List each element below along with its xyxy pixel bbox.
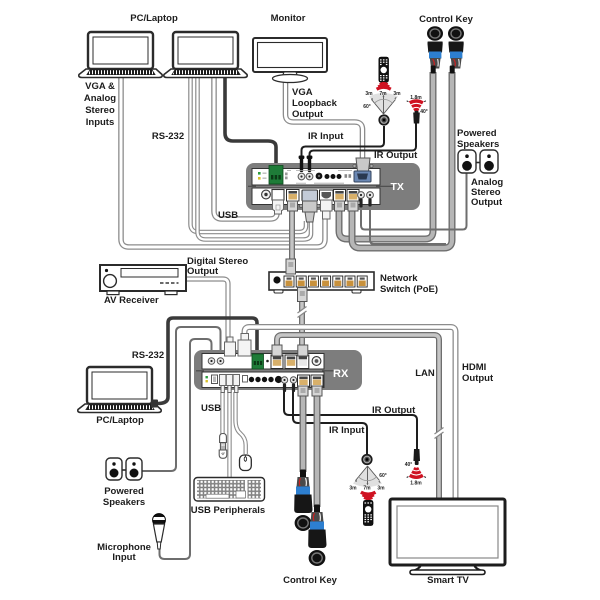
svg-text:PC/Laptop: PC/Laptop (96, 415, 144, 426)
TX audio out jack 1 with plug (358, 192, 365, 199)
svg-text:IR Output: IR Output (372, 405, 416, 416)
monitor (253, 38, 327, 83)
wire IR input to RX (293, 390, 367, 454)
svg-text:Speakers: Speakers (457, 139, 499, 150)
svg-text:RX: RX (333, 368, 349, 380)
svg-text:Network: Network (380, 273, 418, 284)
svg-text:Analog: Analog (84, 93, 116, 104)
wire LAN from RX to Smart TV (277, 335, 439, 500)
svg-text:IR Output: IR Output (374, 150, 418, 161)
TX control RJ45 port 1 with plug (334, 190, 346, 202)
wire stereo input b from PC/Laptop 2 to TX VGA breakout (198, 76, 312, 240)
network switch (269, 259, 374, 302)
svg-text:7m: 7m (379, 91, 387, 97)
svg-text:1.8m: 1.8m (410, 481, 422, 487)
control key 3 (294, 470, 312, 532)
svg-text:Powered: Powered (104, 486, 144, 497)
RX control RJ45 port 4 with plug (311, 375, 323, 387)
RX cat5e RJ45 with plug (297, 355, 309, 369)
svg-text:TX: TX (391, 181, 404, 193)
svg-text:60°: 60° (363, 104, 371, 110)
wire USB to mouse (236, 392, 246, 454)
svg-text:3m: 3m (393, 91, 401, 97)
TX USB-B port with plug (272, 190, 284, 201)
RX coax digital out with plug (225, 342, 236, 356)
USB dongle (219, 434, 227, 459)
IR receiver eye bottom (361, 454, 372, 465)
svg-text:RS-232: RS-232 (152, 131, 184, 142)
wire USB from PC/Laptop 2 to TX USB-B (214, 76, 277, 219)
cable break symbol on switch-RX cable (298, 307, 307, 318)
wire powered speakers to RX (142, 327, 221, 471)
svg-text:Output: Output (471, 197, 503, 208)
svg-text:HDMI: HDMI (462, 362, 486, 373)
TX VGA input port with breakout connector (302, 190, 318, 201)
wire analog stereo output from TX to powered speakers (361, 172, 467, 230)
RX control RJ45 port 3 with plug (298, 375, 310, 387)
wire from TX jack 2 (370, 206, 446, 244)
wire HDMI output from RX to Smart TV (245, 327, 456, 500)
RX audio connector cluster (249, 377, 254, 382)
IR beam arcs below top remote (377, 83, 391, 89)
svg-text:AV Receiver: AV Receiver (104, 295, 159, 306)
wire from PC/Laptop 1 to TX HDMI (121, 76, 325, 247)
svg-text:Switch (PoE): Switch (PoE) (380, 284, 438, 295)
RX small port (243, 376, 248, 383)
TX phoenix RS-232 port (269, 166, 283, 185)
wire control key 1 cable to TX (339, 72, 433, 239)
svg-text:USB: USB (201, 403, 221, 414)
plug below switch port 2 (298, 288, 308, 302)
wire VGA loopback from monitor to TX (286, 82, 363, 158)
IR receiver eye top (378, 114, 389, 125)
svg-text:Powered: Powered (457, 128, 497, 139)
IR emitter beam fan top (407, 101, 426, 110)
IR remote control top (379, 57, 389, 82)
wire USB to keyboard (227, 392, 231, 478)
RX audio out jack (217, 358, 224, 365)
wire VGA input a from PC/Laptop 2 to TX VGA breakout (191, 76, 307, 232)
RX IR in jack with plug (290, 377, 296, 383)
svg-text:Control Key: Control Key (419, 14, 474, 25)
cable break symbol on LAN cable (435, 428, 444, 439)
RX mic jack (208, 358, 215, 365)
IR emitter beam fan bottom (407, 468, 426, 477)
svg-text:Output: Output (292, 109, 324, 120)
svg-text:USB: USB (218, 210, 238, 221)
RX USB host port (212, 375, 218, 384)
TX RJ45 to switch with plug (287, 190, 300, 202)
RX LAN RJ45 with plug (271, 355, 283, 369)
TX dip switches (285, 173, 288, 176)
svg-text:1.8m: 1.8m (410, 95, 422, 101)
svg-text:PC/Laptop: PC/Laptop (130, 13, 178, 24)
plug into switch port 1 (286, 259, 296, 274)
TX unit (246, 156, 420, 223)
powered speakers bottom left (106, 458, 142, 480)
TX HDMI port with plug (320, 190, 334, 200)
svg-text:7m: 7m (363, 486, 371, 492)
RX RJ45 empty (285, 355, 297, 369)
TX IR output jack with plug (307, 156, 313, 160)
wire IR output from RX (284, 390, 417, 449)
TX IR input jack with plug (299, 156, 305, 160)
IR receiver cone bottom (353, 466, 382, 487)
svg-text:40°: 40° (420, 109, 428, 115)
wire IR output from TX (310, 122, 417, 163)
svg-text:VGA &: VGA & (85, 81, 115, 92)
svg-text:Output: Output (462, 373, 494, 384)
RX phoenix RS-232 port (252, 354, 264, 369)
wire USB to dongle (220, 392, 224, 434)
PC/Laptop 3 (78, 367, 161, 413)
svg-text:Stereo: Stereo (85, 105, 115, 116)
svg-text:VGA: VGA (292, 87, 313, 98)
wire control key 2 cable to TX (352, 72, 452, 248)
svg-text:Monitor: Monitor (271, 13, 306, 24)
svg-text:Output: Output (187, 266, 219, 277)
wire RS-232 from PC/Laptop 2 to TX phoenix (225, 76, 276, 164)
IR remote control bottom (363, 500, 373, 525)
TX audio connectors (316, 173, 323, 180)
IR emitter top (413, 110, 420, 124)
wire control key 4 cable to RX (314, 394, 321, 507)
svg-text:Loopback: Loopback (292, 98, 338, 109)
TX top panel: power LEDs (258, 172, 261, 175)
RX unit (194, 334, 362, 397)
svg-text:40°: 40° (405, 462, 413, 468)
TX VGA loopback port with connector (356, 158, 370, 171)
RX bottom panel LEDs (206, 376, 208, 378)
RX USB plugs x3 (220, 375, 226, 386)
IR emitter bottom (413, 449, 420, 465)
svg-text:RS-232: RS-232 (132, 350, 164, 361)
microphone (152, 514, 165, 549)
wire digital stereo output from RX to AV receiver (186, 279, 228, 342)
svg-text:3m: 3m (377, 486, 385, 492)
RX indicator dot (266, 360, 269, 363)
keyboard (194, 478, 265, 502)
IR beam arcs above bottom remote (361, 492, 376, 499)
svg-text:IR Input: IR Input (329, 425, 365, 436)
TX bottom panel: DC jack (262, 190, 271, 199)
Smart TV (390, 499, 505, 575)
wire IR input to TX (302, 126, 385, 163)
svg-text:Speakers: Speakers (103, 497, 145, 508)
control key 2 (448, 26, 464, 73)
svg-text:USB Peripherals: USB Peripherals (191, 505, 265, 516)
RX IR out jack with plug (281, 377, 287, 383)
svg-text:3m: 3m (365, 91, 373, 97)
control key 4 (308, 505, 326, 567)
svg-text:3m: 3m (349, 486, 357, 492)
IR receiver cone top (369, 93, 398, 114)
svg-text:Smart TV: Smart TV (427, 575, 469, 586)
mouse (240, 455, 252, 471)
svg-text:60°: 60° (379, 473, 387, 479)
wire cat5e network switch to RX (299, 300, 305, 346)
PC/Laptop 2 (164, 32, 247, 78)
RX HDMI port with plug (238, 340, 251, 356)
wire cat5e TX to network switch (289, 211, 295, 260)
RX antenna connector (312, 357, 321, 366)
wire control key 3 cable to RX (300, 394, 307, 472)
TX audio out jack 2 with plug (367, 192, 374, 199)
wire RS-232 from RX to PC/Laptop 3 (158, 318, 257, 404)
wire microphone input to RX (160, 339, 212, 559)
svg-text:Inputs: Inputs (86, 117, 115, 128)
AV receiver (100, 265, 186, 295)
svg-text:LAN: LAN (415, 368, 435, 379)
PC/Laptop 1 (79, 32, 162, 78)
svg-text:Control Key: Control Key (283, 575, 338, 586)
TX control RJ45 port 2 with plug (347, 190, 359, 202)
powered speakers top right (458, 150, 498, 173)
control key 1 (427, 26, 443, 73)
svg-text:IR Input: IR Input (308, 131, 344, 142)
svg-text:Input: Input (112, 552, 136, 563)
